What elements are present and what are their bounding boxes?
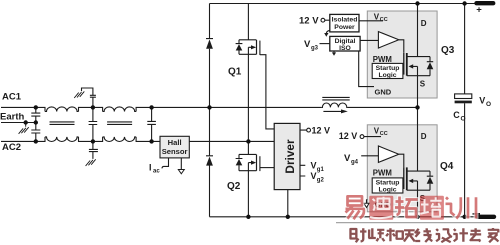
svg-text:C: C: [453, 110, 460, 120]
svg-text:S: S: [420, 79, 426, 88]
svg-text:Sensor: Sensor: [162, 147, 188, 156]
svg-text:g3: g3: [311, 46, 319, 52]
svg-text:Isolated: Isolated: [332, 17, 358, 24]
svg-text:Driver: Driver: [283, 139, 297, 174]
svg-text:Logic: Logic: [378, 72, 396, 79]
svg-text:g4: g4: [351, 160, 359, 166]
svg-text:O: O: [461, 115, 466, 122]
svg-text:I: I: [149, 163, 152, 173]
svg-text:V: V: [311, 171, 317, 181]
svg-text:PWM: PWM: [373, 55, 392, 64]
svg-text:12 V: 12 V: [339, 131, 358, 141]
svg-text:ISO: ISO: [339, 45, 351, 52]
svg-text:AC2: AC2: [2, 142, 21, 153]
svg-text:Q4: Q4: [440, 161, 454, 172]
svg-text:V: V: [304, 39, 311, 50]
svg-text:Logic: Logic: [378, 187, 396, 194]
svg-text:Q2: Q2: [227, 181, 241, 192]
svg-text:g1: g1: [317, 167, 325, 173]
svg-text:CC: CC: [380, 17, 388, 23]
svg-text:Power: Power: [334, 24, 355, 31]
svg-text:V: V: [311, 160, 317, 170]
svg-text:Q1: Q1: [228, 67, 242, 78]
svg-text:AC1: AC1: [2, 92, 22, 103]
svg-text:V: V: [344, 153, 351, 164]
svg-text:12 V: 12 V: [299, 16, 319, 27]
svg-text:g2: g2: [317, 178, 325, 184]
svg-text:Earth: Earth: [0, 112, 24, 123]
svg-text:PWM: PWM: [373, 168, 392, 177]
svg-text:Digital: Digital: [335, 38, 356, 45]
svg-text:12 V: 12 V: [312, 126, 331, 136]
svg-text:GND: GND: [375, 88, 392, 97]
svg-text:Startup: Startup: [376, 65, 400, 72]
svg-text:ac: ac: [153, 169, 160, 175]
svg-text:+: +: [476, 5, 482, 16]
svg-text:Startup: Startup: [376, 179, 400, 186]
svg-text:V: V: [479, 96, 485, 106]
svg-text:CC: CC: [380, 131, 388, 137]
svg-text:Q3: Q3: [441, 45, 455, 56]
svg-text:O: O: [486, 101, 491, 108]
svg-text:D: D: [421, 132, 427, 141]
svg-text:D: D: [421, 19, 427, 28]
